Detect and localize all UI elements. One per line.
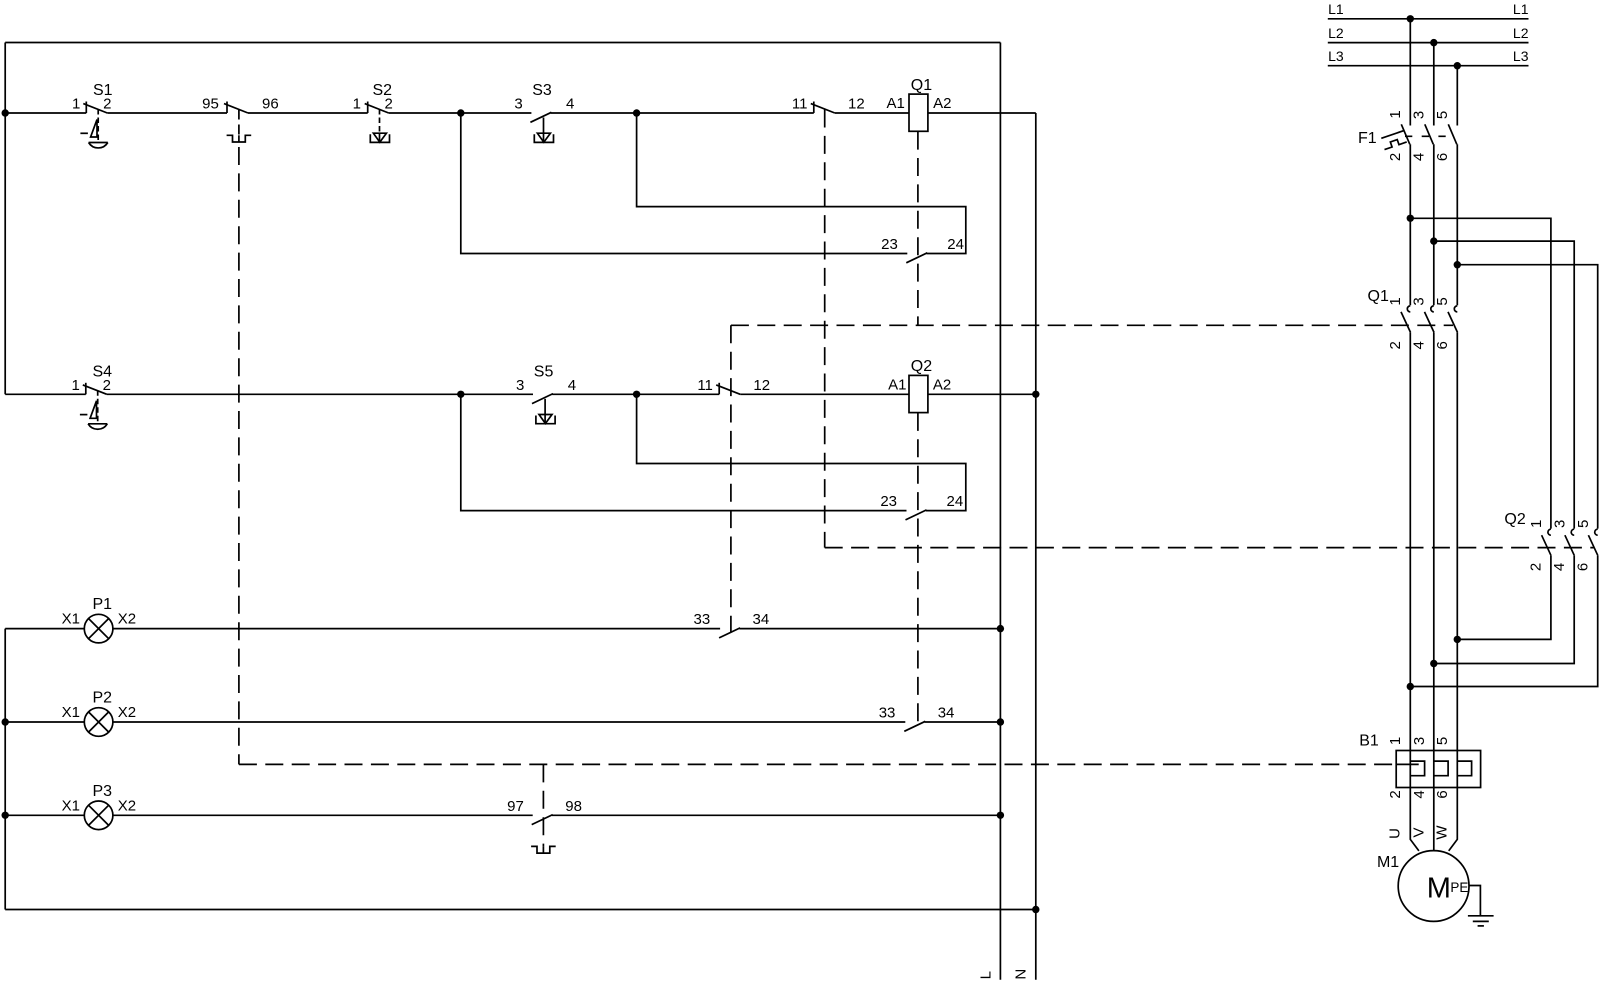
svg-text:33: 33 xyxy=(694,611,711,628)
wire: B1 pole2 to motor V xyxy=(1433,788,1435,851)
wire: S5 to node D xyxy=(552,393,636,395)
contactor Q1 pole 3 xyxy=(1454,306,1457,312)
contact 33-34 of Q1 (NO, lamp P1) xyxy=(719,628,740,638)
svg-text:2: 2 xyxy=(1528,563,1545,571)
svg-text:24: 24 xyxy=(947,493,964,510)
lamp P1 xyxy=(84,614,113,643)
svg-text:2: 2 xyxy=(1387,790,1404,798)
supply line L1 xyxy=(1328,18,1529,20)
svg-text:S4: S4 xyxy=(93,363,113,380)
svg-text:L1: L1 xyxy=(1513,1,1529,17)
wire: 95-96 to S2 xyxy=(248,112,368,114)
wire: B1 columns through box xyxy=(1409,751,1411,788)
contact 11-12 of Q1 (NC interlock) xyxy=(718,383,720,395)
wire: bottom return border xyxy=(5,909,1036,911)
motor M1 xyxy=(1398,851,1469,922)
wire: L2 drop to F1 xyxy=(1433,43,1435,126)
svg-text:S3: S3 xyxy=(532,82,552,99)
S3 pushbutton actuator xyxy=(534,134,553,142)
S1 actuator link xyxy=(97,109,99,143)
wire: node C to S5 xyxy=(461,393,533,395)
wire: 11-12 to coil Q1 xyxy=(835,112,909,114)
svg-text:PE: PE xyxy=(1450,880,1468,895)
B1 heater element pole 1 xyxy=(1410,761,1424,776)
svg-text:X2: X2 xyxy=(118,797,136,814)
svg-text:12: 12 xyxy=(848,96,865,113)
wire: Q1 holding loop lower xyxy=(461,113,908,254)
wire: 11-12 to coil Q2 xyxy=(740,393,909,395)
svg-text:96: 96 xyxy=(262,96,279,113)
svg-text:4: 4 xyxy=(1411,341,1428,349)
supply line L2 xyxy=(1328,42,1529,44)
contact 23-24 of Q2 (NO holding) xyxy=(906,510,927,520)
svg-text:Q1: Q1 xyxy=(1368,288,1389,305)
wire: tap L2 to Q2 pole2 xyxy=(1434,241,1574,528)
node C xyxy=(457,391,464,398)
wire: rung1 left rail to S1 xyxy=(5,112,86,114)
contact 23-24 of Q1 (NO holding) xyxy=(906,253,927,263)
S1 mushroom actuator xyxy=(89,142,108,144)
wire: S3 to node B xyxy=(551,112,637,114)
svg-text:1: 1 xyxy=(1387,297,1404,305)
coil Q1 xyxy=(909,94,928,131)
contactor Q1 pole 1 xyxy=(1407,306,1410,312)
svg-text:Q1: Q1 xyxy=(911,77,932,94)
mech link Q2: horizontal to main contacts xyxy=(825,547,1594,549)
circuit breaker F1 pole 3 xyxy=(1448,124,1457,144)
svg-text:W: W xyxy=(1434,825,1451,840)
wire: F1 pole3 to Q1 pole3 xyxy=(1456,144,1458,305)
wire: coil Q1 A2 to N rail xyxy=(928,112,1036,114)
svg-text:3: 3 xyxy=(1411,111,1428,119)
switch S3 (NO pushbutton, start Q1) xyxy=(530,112,551,122)
wire: P1 lamp to 33-34 xyxy=(113,628,720,630)
wire: 97-98 to L rail xyxy=(552,814,1000,816)
svg-text:95: 95 xyxy=(202,96,219,113)
svg-text:3: 3 xyxy=(514,96,522,113)
svg-text:97: 97 xyxy=(507,798,524,815)
node: crossover on column1 xyxy=(1407,683,1414,690)
wire: coil Q2 A2 to N rail xyxy=(928,393,1036,395)
B1 trip bar inside box xyxy=(1396,763,1419,765)
wire: node B to contact 11-12 (Q2 interlock) xyxy=(637,112,814,114)
svg-text:4: 4 xyxy=(568,377,576,394)
wire: P3 lamp to 97-98 xyxy=(113,814,533,816)
node: bottom border at N rail xyxy=(1032,906,1039,913)
wire: F1 pole1 to Q1 pole1 xyxy=(1409,144,1411,305)
S5 pushbutton actuator xyxy=(536,416,555,424)
svg-text:X1: X1 xyxy=(62,611,80,628)
svg-text:F1: F1 xyxy=(1358,130,1377,147)
mech link B1: stem below 95-96 xyxy=(238,110,240,136)
svg-text:N: N xyxy=(1012,969,1029,980)
svg-text:X1: X1 xyxy=(62,797,80,814)
svg-text:4: 4 xyxy=(566,96,574,113)
contact 33-34 of Q2 (NO, lamp P2) xyxy=(904,721,925,731)
contactor Q2 pole 2 xyxy=(1571,529,1574,535)
wire: 33-34 to L rail xyxy=(739,628,1000,630)
svg-text:U: U xyxy=(1387,828,1404,839)
svg-text:A1: A1 xyxy=(888,376,906,393)
wire: F1 pole2 to Q1 pole2 xyxy=(1433,144,1435,305)
svg-text:L1: L1 xyxy=(1328,1,1344,17)
svg-text:A2: A2 xyxy=(933,376,951,393)
svg-text:V: V xyxy=(1411,827,1428,837)
node: tap to Q2 pole3 xyxy=(1454,261,1461,268)
contact 11-12 of Q2 (NC interlock) xyxy=(813,102,815,114)
svg-text:5: 5 xyxy=(1434,111,1451,119)
svg-text:M: M xyxy=(1427,873,1451,905)
node: P1 at L rail xyxy=(997,625,1004,632)
svg-text:4: 4 xyxy=(1411,790,1428,798)
B1 reset symbol below 97-98 xyxy=(531,846,556,853)
wire: Q1 poles down to B1 xyxy=(1409,332,1411,750)
mech link Q1: coil to 23-24 xyxy=(917,132,919,326)
wire: Q1 holding loop upper xyxy=(637,113,966,254)
wire: S1 to contact 95-96 xyxy=(107,112,227,114)
B1 heater element pole 3 xyxy=(1457,761,1471,776)
svg-text:34: 34 xyxy=(753,611,770,628)
S2 pushbutton actuator xyxy=(370,134,389,142)
node L1 tap xyxy=(1407,15,1414,22)
wire: L rail xyxy=(999,43,1001,980)
wire: P1 rung left xyxy=(5,628,84,630)
wire: rung2 from left rail to S4 xyxy=(5,393,86,395)
node B xyxy=(633,109,640,116)
circuit breaker F1 pole 1 xyxy=(1401,124,1410,144)
svg-text:6: 6 xyxy=(1434,341,1451,349)
svg-text:Q2: Q2 xyxy=(911,358,932,375)
svg-text:11: 11 xyxy=(792,96,808,113)
svg-text:L2: L2 xyxy=(1328,25,1344,41)
svg-text:12: 12 xyxy=(753,377,770,394)
contact 95-96 of B1 (NC) xyxy=(226,102,228,114)
svg-text:M1: M1 xyxy=(1377,854,1399,871)
svg-text:98: 98 xyxy=(565,798,582,815)
wire: L1 drop to F1 xyxy=(1409,19,1411,126)
svg-text:4: 4 xyxy=(1551,563,1568,571)
node: tap to Q2 pole2 xyxy=(1430,237,1437,244)
node: P3 at L rail xyxy=(997,812,1004,819)
svg-text:1: 1 xyxy=(71,377,79,394)
coil Q2 xyxy=(909,375,928,412)
wire: P2 rung left xyxy=(5,721,84,723)
wire: P2 lamp to 33-34 xyxy=(113,721,905,723)
svg-text:24: 24 xyxy=(947,236,964,253)
S4 actuator link xyxy=(97,390,99,424)
switch S4 (NC, emergency stop) xyxy=(85,383,87,395)
contact 97-98 of B1 (NO, fault lamp) xyxy=(532,815,553,825)
B1 reset symbol below 95-96 xyxy=(227,135,252,142)
svg-text:1: 1 xyxy=(1387,110,1404,118)
mech link Q2: coil to 23-24 to 33-34 xyxy=(917,413,919,726)
wire: Q2 holding loop lower xyxy=(461,394,907,510)
S3 actuator link xyxy=(543,118,545,134)
S4 mushroom actuator xyxy=(88,423,107,425)
svg-text:34: 34 xyxy=(938,704,955,721)
svg-text:1: 1 xyxy=(1387,737,1404,745)
lamp P3 xyxy=(84,801,113,830)
node: rung 1 tap on left rail xyxy=(1,109,8,116)
node D xyxy=(633,391,640,398)
F1 operating lever xyxy=(1381,131,1403,139)
svg-text:11: 11 xyxy=(697,377,713,394)
svg-text:1: 1 xyxy=(72,96,80,113)
svg-text:B1: B1 xyxy=(1359,732,1379,749)
mech link Q1: horizontal to main contacts xyxy=(731,324,1453,326)
contactor Q2 pole 3 xyxy=(1595,529,1598,535)
svg-text:3: 3 xyxy=(1411,737,1428,745)
svg-text:6: 6 xyxy=(1575,563,1592,571)
wire: Q2 holding loop upper xyxy=(637,394,966,510)
svg-text:S1: S1 xyxy=(93,82,113,99)
svg-text:L: L xyxy=(978,971,995,979)
wire: S2 to node A xyxy=(389,112,461,114)
node: P2 at L rail xyxy=(997,718,1004,725)
S2 actuator link xyxy=(379,109,381,133)
svg-text:6: 6 xyxy=(1434,153,1451,161)
wire: top supply border from left rail to L rail xyxy=(5,42,1000,44)
svg-text:S5: S5 xyxy=(534,363,554,380)
svg-text:X2: X2 xyxy=(118,704,136,721)
svg-text:4: 4 xyxy=(1410,153,1427,161)
node: crossover on column2 xyxy=(1430,660,1437,667)
wire: Q2 pole1 out crossover to column3 xyxy=(1457,556,1551,640)
wire: left rail upper segment xyxy=(4,43,6,395)
wire: S4 to node C xyxy=(107,393,461,395)
wire: node A to S3 xyxy=(461,112,532,114)
switch S5 (NO pushbutton, start Q2) xyxy=(532,394,553,404)
svg-text:6: 6 xyxy=(1434,790,1451,798)
wire: node D to contact 11-12 (Q1 interlock) xyxy=(637,393,720,395)
svg-text:3: 3 xyxy=(1411,297,1428,305)
node: Q2 A2 at N rail xyxy=(1032,391,1039,398)
node L3 tap xyxy=(1454,62,1461,69)
supply line L3 xyxy=(1328,65,1529,67)
contactor Q1 pole 2 xyxy=(1431,306,1434,312)
svg-text:X2: X2 xyxy=(118,611,136,628)
S5 actuator link xyxy=(544,399,546,415)
wire: tap L3 to Q2 pole3 xyxy=(1457,265,1597,529)
wire: L3 drop to F1 xyxy=(1456,66,1458,126)
svg-text:33: 33 xyxy=(879,704,896,721)
mech link Q1: vertical through 11-12 rung2 to 33-34 P1 xyxy=(730,325,732,632)
svg-text:3: 3 xyxy=(1551,520,1568,528)
svg-text:L3: L3 xyxy=(1513,48,1529,64)
mech link Q2: vertical from 11-12 down xyxy=(824,110,826,548)
node: P2 tap xyxy=(1,718,8,725)
svg-text:5: 5 xyxy=(1575,520,1592,528)
wire: B1 pole3 to motor W xyxy=(1449,788,1458,851)
svg-text:P1: P1 xyxy=(93,596,113,613)
wire: motor PE to earth xyxy=(1469,886,1480,916)
svg-text:Q2: Q2 xyxy=(1504,511,1525,528)
circuit breaker F1 pole 2 xyxy=(1425,124,1434,144)
wire: N rail xyxy=(1035,113,1037,980)
wire: P3 rung left xyxy=(5,814,84,816)
F1 mechanical tie bar xyxy=(1405,135,1455,137)
F1 latch symbol xyxy=(1383,137,1407,150)
svg-text:2: 2 xyxy=(1387,153,1404,161)
wire: 33-34 to L rail xyxy=(925,721,1001,723)
node L2 tap xyxy=(1430,39,1437,46)
node A xyxy=(457,109,464,116)
node: P3 tap xyxy=(1,812,8,819)
svg-text:1: 1 xyxy=(353,96,361,113)
svg-text:P3: P3 xyxy=(93,783,113,800)
mech link B1: vertical to 97-98 xyxy=(542,764,544,846)
B1 heater element pole 2 xyxy=(1434,761,1448,776)
svg-text:23: 23 xyxy=(881,236,898,253)
svg-text:L2: L2 xyxy=(1513,25,1529,41)
svg-text:2: 2 xyxy=(1387,341,1404,349)
switch S2 (NC pushbutton, stop) xyxy=(367,102,369,114)
earth ground symbol xyxy=(1468,915,1494,917)
contactor Q2 pole 1 xyxy=(1548,529,1551,535)
svg-text:S2: S2 xyxy=(373,82,393,99)
node: tap to Q2 pole1 xyxy=(1407,215,1414,222)
lamp P2 xyxy=(84,708,113,737)
wire: Q2 pole3 out crossover to column1 xyxy=(1410,556,1597,687)
svg-text:1: 1 xyxy=(1528,520,1545,528)
svg-text:23: 23 xyxy=(880,493,897,510)
svg-text:A1: A1 xyxy=(887,95,905,112)
wire: B1 pole1 to motor U xyxy=(1410,788,1419,851)
svg-text:5: 5 xyxy=(1434,297,1451,305)
svg-text:X1: X1 xyxy=(62,704,80,721)
wire: Q2 pole2 out to column2 xyxy=(1434,556,1574,664)
svg-text:L3: L3 xyxy=(1328,48,1344,64)
svg-text:5: 5 xyxy=(1434,737,1451,745)
thermal overload relay B1 box xyxy=(1396,751,1480,788)
mech link B1: long vertical to y=764 xyxy=(238,147,240,764)
wire: left rail lower segment xyxy=(4,629,6,910)
switch S1 (NC, emergency stop) xyxy=(85,102,87,114)
wire: tap L1 to Q2 pole1 xyxy=(1410,218,1551,528)
svg-text:3: 3 xyxy=(516,377,524,394)
svg-text:A2: A2 xyxy=(933,95,951,112)
svg-text:P2: P2 xyxy=(93,690,113,707)
node: crossover on column3 xyxy=(1454,636,1461,643)
mech link B1: horizontal to B1 xyxy=(239,763,1396,765)
